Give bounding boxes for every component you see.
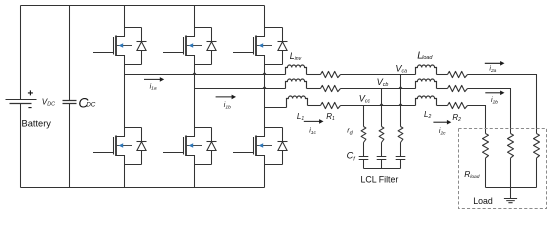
transistor Q4 (bottom, leg b) part7 xyxy=(189,143,194,148)
wire phase c from leg3 xyxy=(265,107,287,109)
wire shunt c mid xyxy=(363,143,365,157)
wire leg c to bottom bus xyxy=(264,165,266,188)
transistor Q3 (top, leg b) part3 xyxy=(183,37,185,55)
wire drain link top leg c xyxy=(265,27,283,29)
wire CDC bottom lead xyxy=(69,104,71,188)
wire a to load (turn down) xyxy=(468,75,537,134)
wire shunt b upper xyxy=(381,89,383,127)
wire drain link top leg b xyxy=(195,27,212,29)
wire phase b from leg2 xyxy=(195,88,286,90)
transistor Q2 (bottom, leg a) part6 xyxy=(117,145,132,147)
junction shunt b crossing row c xyxy=(379,103,384,106)
transistor Q2 (bottom, leg a) part5 xyxy=(116,156,125,165)
diode D4 part2 xyxy=(207,141,217,143)
diode D6 part1 xyxy=(282,128,284,142)
load dashed box xyxy=(459,129,547,209)
svg-text:i2b: i2b xyxy=(491,97,498,105)
svg-text:rd: rd xyxy=(347,126,353,137)
wire bottom DC bus xyxy=(21,187,265,189)
svg-text:Cf: Cf xyxy=(347,151,356,163)
capacitor Cf phase a xyxy=(396,157,406,160)
wire shunt a mid xyxy=(400,143,402,157)
transistor Q6 (bottom, leg c) part1 xyxy=(256,128,265,137)
wire shunt b lower xyxy=(381,160,383,169)
wire battery positive lead xyxy=(20,6,22,100)
current arrow i2a xyxy=(485,62,501,64)
inductor L2 phase c xyxy=(416,96,437,106)
wire leg a to bottom bus xyxy=(124,165,126,188)
junction shunt a crossing row b xyxy=(398,86,403,89)
svg-text:Linv: Linv xyxy=(290,51,302,62)
transistor Q4 (bottom, leg b) part6 xyxy=(187,145,202,147)
wire drain link bottom leg b xyxy=(195,127,212,129)
transistor Q1 (top, leg a) part2 xyxy=(115,36,117,57)
junction leg3 crossing a xyxy=(262,72,267,75)
transistor Q3 (top, leg b) part1 xyxy=(186,28,195,37)
svg-text:R2: R2 xyxy=(452,113,461,123)
wire load c lower xyxy=(485,158,487,187)
transistor Q4 (bottom, leg b) part3 xyxy=(183,137,185,155)
wire drain link bottom leg a xyxy=(125,127,142,129)
transistor Q3 (top, leg b) part6 xyxy=(187,45,202,47)
svg-text:R1: R1 xyxy=(326,112,335,122)
resistor R2 phase b xyxy=(448,85,468,91)
wire leg b midpoint xyxy=(194,65,196,128)
diode D2 part1 xyxy=(141,128,143,142)
diode D1 part3 xyxy=(137,42,146,51)
inductor Lload phase a xyxy=(416,65,437,75)
svg-text:L2: L2 xyxy=(424,110,431,120)
svg-text:DC: DC xyxy=(86,101,96,108)
transistor Q5 (top, leg c) part6 xyxy=(257,45,272,47)
diode D3 part4 xyxy=(211,51,213,65)
transistor Q3 (top, leg b) part4 xyxy=(163,52,184,54)
svg-text:Load: Load xyxy=(473,196,493,206)
wire shunt c upper xyxy=(363,106,365,127)
current arrow i1a xyxy=(144,78,160,80)
current arrow i1b xyxy=(216,96,233,98)
svg-text:i1c: i1c xyxy=(309,128,316,136)
diode D1 part2 xyxy=(137,41,147,43)
battery minus sign xyxy=(28,107,31,109)
svg-text:Vca: Vca xyxy=(395,64,407,75)
resistor R1 phase c xyxy=(321,102,341,108)
transistor Q1 (top, leg a) part3 xyxy=(113,37,115,55)
transistor Q6 (bottom, leg c) part7 xyxy=(259,143,264,148)
transistor Q5 (top, leg c) part2 xyxy=(255,36,257,57)
diode D1 part4 xyxy=(141,51,143,65)
svg-text:i1b: i1b xyxy=(224,102,231,110)
svg-text:Vcc: Vcc xyxy=(359,93,371,104)
transistor Q2 (bottom, leg a) part7 xyxy=(119,143,124,148)
transistor Q4 (bottom, leg b) part5 xyxy=(186,156,195,165)
inductor Lload phase b xyxy=(416,79,437,88)
svg-text:load: load xyxy=(422,55,433,61)
transistor Q6 (bottom, leg c) part4 xyxy=(233,152,254,154)
transistor Q3 (top, leg b) part5 xyxy=(186,56,195,65)
wire shunt a lower xyxy=(400,160,402,169)
transistor Q4 (bottom, leg b) part4 xyxy=(163,152,184,154)
wire source link bottom leg a xyxy=(125,164,142,166)
wire battery negative lead xyxy=(20,104,22,188)
ground xyxy=(504,188,517,203)
inductor Linv phase b xyxy=(286,79,307,88)
current arrow i2c xyxy=(433,121,447,123)
resistor Rload phase c xyxy=(483,134,489,159)
resistor R1 phase b xyxy=(321,85,341,91)
wire b coil to R1 xyxy=(307,88,321,90)
capacitor CDC xyxy=(63,101,77,104)
wire drain link bottom leg c xyxy=(265,127,283,129)
transistor Q3 (top, leg b) part7 xyxy=(189,43,194,48)
svg-text:LCL Filter: LCL Filter xyxy=(361,175,399,185)
transistor Q1 (top, leg a) part4 xyxy=(93,52,114,54)
battery B1 positive plate xyxy=(6,99,37,101)
diode D3 part2 xyxy=(207,41,217,43)
transistor Q4 (bottom, leg b) part2 xyxy=(185,136,187,157)
capacitor Cf phase b xyxy=(377,157,387,160)
diode D2 part4 xyxy=(141,151,143,165)
svg-text:VDC: VDC xyxy=(42,97,55,107)
svg-text:i2c: i2c xyxy=(439,128,446,136)
diode D5 part4 xyxy=(282,51,284,65)
transistor Q1 (top, leg a) part7 xyxy=(119,43,124,48)
wire leg a to top bus xyxy=(124,6,126,28)
wire leg b to bottom bus xyxy=(194,165,196,188)
svg-text:Rload: Rload xyxy=(464,169,480,180)
diode D2 part2 xyxy=(137,141,147,143)
wire load b lower xyxy=(510,158,512,187)
resistor Rload phase a xyxy=(534,134,540,159)
diode D1 part1 xyxy=(141,28,143,42)
diode D4 part1 xyxy=(211,128,213,142)
transistor Q6 (bottom, leg c) part6 xyxy=(257,145,272,147)
current arrow i1c xyxy=(304,120,320,122)
battery plus sign xyxy=(28,90,33,95)
transistor Q1 (top, leg a) part1 xyxy=(116,28,125,37)
transistor Q6 (bottom, leg c) part5 xyxy=(256,156,265,165)
svg-text:Vcb: Vcb xyxy=(377,77,389,88)
junction leg2 crossing a xyxy=(192,72,197,75)
wire source link top leg c xyxy=(265,64,283,66)
transistor Q5 (top, leg c) part4 xyxy=(233,52,254,54)
wire leg c midpoint xyxy=(264,65,266,128)
wire b R1 to Lload xyxy=(341,88,416,90)
wire phase a from leg1 xyxy=(125,74,286,76)
transistor Q2 (bottom, leg a) part4 xyxy=(93,152,114,154)
wire shunt b mid xyxy=(381,143,383,157)
transistor Q1 (top, leg a) part6 xyxy=(117,45,132,47)
inductor L1 phase c xyxy=(287,96,308,108)
resistor R2 phase c xyxy=(448,102,468,108)
wire a Lload to R2 xyxy=(437,74,448,76)
wire source link bottom leg b xyxy=(195,164,212,166)
diode D6 part4 xyxy=(282,151,284,165)
wire c R1 to L2 xyxy=(341,105,416,107)
transistor Q3 (top, leg b) part2 xyxy=(185,36,187,57)
svg-text:Battery: Battery xyxy=(22,119,52,129)
diode D5 part3 xyxy=(278,42,287,51)
wire leg c to top bus xyxy=(264,6,266,28)
wire c L2 to R2 xyxy=(437,105,448,107)
wire shunt a upper xyxy=(400,75,402,127)
resistor R2 phase a xyxy=(448,71,468,77)
transistor Q5 (top, leg c) part5 xyxy=(256,56,265,65)
transistor Q6 (bottom, leg c) part2 xyxy=(255,136,257,157)
wire b Lload to R2 xyxy=(437,88,448,90)
transistor Q6 (bottom, leg c) part3 xyxy=(253,137,255,155)
transistor Q2 (bottom, leg a) part2 xyxy=(115,136,117,157)
transistor Q5 (top, leg c) part1 xyxy=(256,28,265,37)
wire leg a midpoint xyxy=(124,65,126,128)
capacitor Cf phase c xyxy=(359,157,369,160)
resistor rd phase b xyxy=(379,127,384,143)
diode D3 part1 xyxy=(211,28,213,42)
wire b to load (turn down) xyxy=(468,89,511,134)
svg-text:i2a: i2a xyxy=(489,66,496,74)
resistor R1 phase a xyxy=(321,71,341,77)
wire c coil to R1 xyxy=(308,105,321,107)
diode D4 part3 xyxy=(207,142,216,151)
wire load bottom rail xyxy=(486,187,537,189)
junction shunt a crossing row c xyxy=(398,103,403,106)
transistor Q2 (bottom, leg a) part3 xyxy=(113,137,115,155)
svg-text:i1a: i1a xyxy=(150,83,157,91)
transistor Q5 (top, leg c) part3 xyxy=(253,37,255,55)
wire load a lower xyxy=(536,158,538,187)
resistor rd phase a xyxy=(398,127,403,143)
diode D6 part3 xyxy=(278,142,287,151)
wire a R1 to Lload xyxy=(341,74,416,76)
transistor Q2 (bottom, leg a) part1 xyxy=(116,128,125,137)
inductor Linv phase a xyxy=(286,65,307,75)
diode D3 part3 xyxy=(207,42,216,51)
svg-text:L1: L1 xyxy=(297,112,304,122)
transistor Q5 (top, leg c) part7 xyxy=(259,43,264,48)
wire drain link top leg a xyxy=(125,27,142,29)
wire top DC bus xyxy=(21,5,265,7)
diode D5 part2 xyxy=(278,41,288,43)
diode D6 part2 xyxy=(278,141,288,143)
resistor Rload phase b xyxy=(508,134,514,159)
wire c to load (turn down) xyxy=(468,106,486,134)
transistor Q1 (top, leg a) part5 xyxy=(116,56,125,65)
wire source link top leg a xyxy=(125,64,142,66)
wire CDC top lead xyxy=(69,6,71,101)
wire source link top leg b xyxy=(195,64,212,66)
current arrow i2b xyxy=(485,92,500,94)
wire source link bottom leg c xyxy=(265,164,283,166)
wire leg b to top bus xyxy=(194,6,196,28)
wire a coil to R1 xyxy=(307,74,321,76)
wire shunt c lower xyxy=(363,160,365,169)
diode D5 part1 xyxy=(282,28,284,42)
battery B1 negative plate xyxy=(10,103,32,105)
diode D2 part3 xyxy=(137,142,146,151)
junction leg3 crossing b xyxy=(262,86,267,89)
wire LCL bottom rail xyxy=(364,168,401,170)
diode D4 part4 xyxy=(211,151,213,165)
resistor rd phase c xyxy=(361,127,366,143)
transistor Q4 (bottom, leg b) part1 xyxy=(186,128,195,137)
